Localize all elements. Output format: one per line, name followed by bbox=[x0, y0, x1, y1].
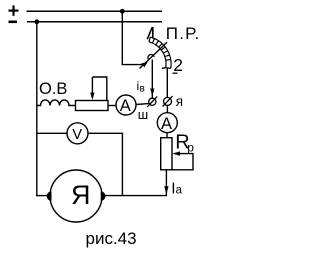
svg-text:П.Р.: П.Р. bbox=[166, 24, 201, 43]
ammeter A1 (field current) bbox=[116, 95, 136, 115]
rheostat Rp slider with arrow bbox=[172, 154, 193, 170]
junction dot on plus line bbox=[120, 9, 125, 14]
svg-text:в: в bbox=[140, 84, 145, 95]
wire: voltmeter branch left bbox=[37, 132, 67, 134]
wire: trunk to left brush bbox=[36, 195, 47, 197]
rheostat Rp body bbox=[161, 138, 172, 170]
wire: switch arc to terminal ш with current arrow iв bbox=[151, 60, 153, 99]
right brush bbox=[101, 191, 106, 201]
wire: minus supply line bbox=[27, 21, 162, 23]
terminal я (armature clamp) bbox=[164, 97, 172, 105]
wire: rheostat to ammeter A1 bbox=[108, 105, 116, 107]
copper arc hook at lever pivot bbox=[148, 54, 154, 59]
inductor: field winding coil bbox=[37, 100, 76, 106]
armature machine Я bbox=[50, 170, 102, 222]
wire: left vertical trunk from minus line bbox=[36, 22, 38, 196]
svg-text:А: А bbox=[120, 97, 131, 115]
svg-text:О.В: О.В bbox=[39, 80, 67, 98]
voltmeter V bbox=[67, 123, 88, 144]
wire: ammeter A1 to terminal ш bbox=[136, 103, 149, 106]
svg-text:2: 2 bbox=[173, 55, 183, 75]
wire: from plus line down to switch lever bbox=[122, 11, 144, 64]
contact 2 tick bbox=[162, 67, 166, 70]
svg-text:ш: ш bbox=[138, 107, 148, 122]
minus terminal symbol bbox=[9, 20, 18, 23]
terminal ш (shunt clamp) bbox=[149, 98, 156, 105]
junction dot on minus line bbox=[34, 19, 39, 24]
current arrow Ia bbox=[164, 186, 168, 194]
left brush bbox=[47, 191, 52, 201]
wire: voltmeter to right drop bbox=[88, 133, 122, 195]
wire: ammeter A2 to rheostat Rp bbox=[166, 133, 168, 138]
contact 1 tick and label 1 bbox=[147, 27, 153, 39]
wire: rheostat Rp down to armature bus bbox=[165, 170, 167, 196]
field rheostat resistor body bbox=[76, 101, 109, 111]
plus terminal symbol bbox=[9, 5, 19, 15]
wire: right brush to rheostat column (armature bus) bbox=[105, 195, 167, 197]
wire: plus supply line bbox=[27, 10, 163, 12]
ammeter A2 (armature current) bbox=[157, 113, 177, 133]
wire: terminal я to ammeter A2 bbox=[166, 105, 168, 112]
svg-text:Я: Я bbox=[71, 180, 91, 210]
svg-text:р: р bbox=[187, 141, 194, 155]
starting rheostat П.Р. stud arc bbox=[149, 37, 171, 68]
svg-text:я: я bbox=[176, 94, 183, 109]
switch lever blade bbox=[140, 42, 168, 68]
svg-text:рис.43: рис.43 bbox=[86, 229, 137, 248]
svg-text:V: V bbox=[72, 127, 82, 143]
arrowhead at lever feed wire bbox=[141, 62, 147, 67]
svg-text:А: А bbox=[161, 115, 172, 133]
field rheostat slider arm with arrow bbox=[92, 77, 106, 100]
wire: stud arc end down to terminal я bbox=[166, 69, 168, 98]
svg-text:а: а bbox=[176, 184, 183, 196]
small dash under 2 bbox=[173, 72, 178, 74]
